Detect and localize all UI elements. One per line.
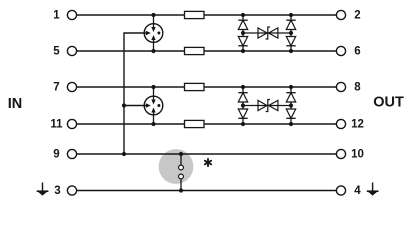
terminal 2	[336, 10, 345, 19]
junction V1 bottom	[241, 49, 245, 53]
junction V5 bottom	[289, 122, 293, 126]
ground (right of terminal 4)	[367, 183, 379, 196]
terminal 7	[67, 82, 76, 91]
resistor R1	[185, 11, 205, 18]
diode stack V1 (left, lines 1-5)	[238, 15, 247, 51]
svg-text:4: 4	[354, 185, 361, 197]
svg-text:1: 1	[53, 9, 60, 21]
svg-text:6: 6	[354, 45, 360, 57]
terminal 3	[67, 186, 76, 195]
svg-text:11: 11	[50, 118, 63, 130]
wire 11-12	[77, 123, 336, 125]
terminal 1	[67, 10, 76, 19]
wire common bus	[124, 33, 154, 154]
junction V2 bottom	[289, 49, 293, 53]
junction U1 bottom	[151, 49, 155, 53]
surge arrester U1 (3-electrode gas discharge tube)	[144, 15, 163, 51]
svg-text:7: 7	[53, 81, 59, 93]
svg-text:12: 12	[351, 118, 364, 130]
junction bus-line9	[122, 152, 126, 156]
junction U2 bottom	[151, 122, 155, 126]
terminal 9	[67, 149, 76, 158]
junction V2 mid	[289, 31, 293, 35]
junction bus-arm2	[122, 103, 126, 107]
svg-text:9: 9	[53, 148, 59, 160]
asterisk marker	[205, 159, 211, 166]
diode stack V2 (right, lines 1-5)	[286, 15, 295, 51]
junction U2 top	[151, 85, 155, 89]
junction F3 bottom	[179, 188, 183, 192]
junction F3 top	[179, 152, 183, 156]
terminal 11	[67, 119, 76, 128]
diode stack V5 (right, lines 7-11)	[286, 87, 295, 124]
resistor R2	[185, 47, 205, 54]
wire V1-V2 midpoints	[243, 32, 291, 34]
terminal 8	[336, 82, 345, 91]
svg-text:OUT: OUT	[373, 95, 404, 111]
ground (left of terminal 3)	[37, 183, 49, 196]
svg-text:5: 5	[53, 45, 60, 57]
junction V4 top	[241, 85, 245, 89]
terminal 4	[336, 186, 345, 195]
wire 7-8	[77, 86, 336, 88]
svg-text:10: 10	[351, 148, 364, 160]
svg-text:3: 3	[54, 185, 60, 197]
junction V5 mid	[289, 103, 293, 107]
junction V1 mid	[241, 31, 245, 35]
terminal 12	[336, 119, 345, 128]
terminal 6	[336, 46, 345, 55]
svg-text:2: 2	[354, 9, 360, 21]
wire 9-10	[77, 153, 336, 155]
spark gap F3 electrodes	[179, 154, 184, 191]
svg-text:IN: IN	[8, 96, 23, 112]
junction V1 top	[241, 13, 245, 17]
junction V4 bottom	[241, 122, 245, 126]
resistor R4	[185, 120, 205, 127]
svg-text:8: 8	[354, 81, 361, 93]
junction V2 top	[289, 13, 293, 17]
junction U1 top	[151, 13, 155, 17]
wire V4-V5 midpoints	[243, 105, 291, 107]
surge arrester U2 (3-electrode gas discharge tube)	[144, 87, 163, 124]
wire bus to U2 arm	[124, 105, 154, 107]
wire 3-4	[77, 190, 336, 192]
gas discharge tube F3 housing (gray circle)	[159, 149, 194, 184]
suppressor diode V3 (bidirectional, lines 1-5)	[258, 27, 278, 39]
resistor R3	[185, 83, 205, 90]
diode stack V4 (left, lines 7-11)	[238, 87, 247, 124]
terminal 10	[336, 149, 345, 158]
junction V5 top	[289, 85, 293, 89]
suppressor diode V6 (bidirectional, lines 7-11)	[258, 100, 278, 112]
terminal 5	[67, 46, 76, 55]
junction V4 mid	[241, 103, 245, 107]
wire 5-6	[77, 50, 336, 52]
wire 1-2	[77, 14, 336, 16]
